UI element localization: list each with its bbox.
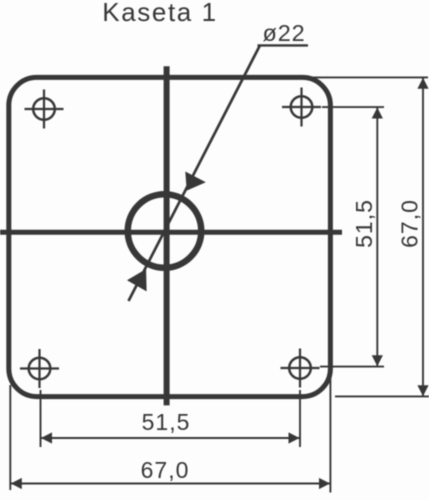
extension line: bottom-right hole center: [320, 366, 384, 368]
arrow right (67,0 bottom): [319, 478, 330, 489]
svg-text:Kaseta 1: Kaseta 1: [102, 0, 217, 27]
arrow up (67,0 vertical): [417, 78, 428, 89]
leader arrowhead lower (points to circle bottom-left): [127, 269, 147, 291]
hole bottom-right: [281, 349, 320, 388]
hole top-right: [282, 88, 321, 127]
vertical center line: [164, 66, 170, 405]
arrow up (51,5 vertical): [372, 108, 383, 119]
dimension line 51,5 bottom: [41, 437, 300, 439]
svg-text:ø22: ø22: [263, 20, 306, 46]
extension line: plate top edge to right: [306, 76, 428, 78]
extension line: bottom-left hole down: [40, 390, 42, 447]
arrow left (51,5 bottom): [41, 432, 52, 443]
leader underline under ø22: [258, 44, 309, 46]
extension line: plate right edge down: [329, 372, 331, 493]
leader arrowhead upper (points to circle top-right): [185, 172, 206, 191]
extension line: plate bottom edge to right: [335, 395, 429, 397]
extension line: bottom-right hole down: [299, 390, 301, 447]
plate outline (rounded square): [9, 77, 331, 396]
hole bottom-left: [20, 349, 59, 388]
arrow down (51,5 vertical): [372, 355, 383, 366]
center circle (ø22 hole): [128, 194, 202, 268]
extension line: plate left edge down: [9, 385, 11, 490]
hole top-left: [25, 90, 64, 129]
dimension line 67,0 vertical right: [422, 78, 424, 396]
dimension line 67,0 bottom: [11, 483, 330, 485]
arrow right (51,5 bottom): [289, 432, 300, 443]
dimension line 51,5 vertical right: [376, 108, 378, 367]
svg-text:67,0: 67,0: [397, 199, 423, 248]
arrow left (67,0 bottom): [11, 478, 22, 489]
extension line: top-right hole center: [322, 106, 384, 108]
horizontal center line: [0, 230, 342, 235]
leader line for ø22: [129, 45, 261, 301]
svg-text:67,0: 67,0: [141, 457, 190, 483]
svg-text:51,5: 51,5: [351, 199, 377, 248]
arrow down (67,0 vertical): [417, 385, 428, 396]
svg-text:51,5: 51,5: [142, 409, 191, 435]
